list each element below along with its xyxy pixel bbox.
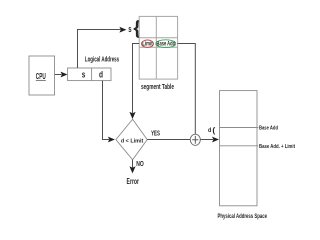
svg-text:segment Table: segment Table	[141, 82, 174, 91]
svg-text:s: s	[82, 69, 86, 79]
svg-text:YES: YES	[151, 130, 160, 137]
svg-text:Error: Error	[127, 177, 140, 186]
svg-text:Base Add. + Limit: Base Add. + Limit	[259, 144, 295, 150]
svg-text:d: d	[99, 69, 103, 79]
svg-text:s: s	[128, 24, 131, 34]
svg-text:Physical Address Space: Physical Address Space	[218, 213, 268, 220]
svg-text:Logical Address: Logical Address	[85, 54, 119, 63]
svg-text:CPU: CPU	[36, 71, 46, 81]
svg-text:(: (	[212, 125, 215, 135]
svg-text:NO: NO	[136, 159, 144, 168]
svg-text:d: d	[208, 127, 211, 134]
svg-text:d < Limit: d < Limit	[121, 138, 144, 144]
svg-text:Base Add: Base Add	[259, 125, 278, 131]
